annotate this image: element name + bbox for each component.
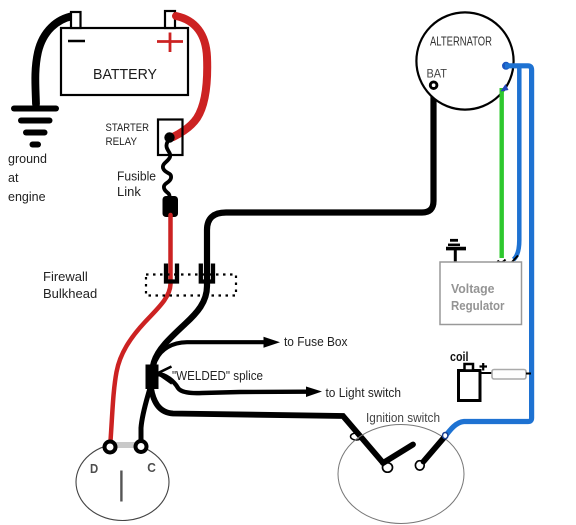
wire fusible link to distributor D (red) (111, 215, 171, 441)
svg-text:ALTERNATOR: ALTERNATOR (430, 35, 492, 49)
coil body (459, 364, 481, 401)
tick at regulator blue terminal (512, 256, 518, 263)
ignition terminal 4 (blue) (443, 433, 448, 439)
svg-text:C: C (147, 460, 156, 475)
wire alternator BAT to firewall bulkhead (black) (153, 88, 434, 368)
svg-text:"WELDED" splice: "WELDED" splice (172, 368, 263, 383)
svg-text:to Light switch: to Light switch (326, 385, 402, 400)
WELDED splice body (146, 365, 159, 390)
ground at engine symbol (14, 109, 56, 145)
svg-text:Fusible: Fusible (117, 169, 156, 184)
terminal C (136, 441, 147, 452)
wire alternator to voltage regulator (green) (498, 84, 509, 262)
svg-text:BAT: BAT (427, 69, 448, 81)
terminal D (105, 442, 116, 453)
battery B1 (61, 11, 188, 95)
jumper bar between D and C (115, 442, 136, 448)
wire splice to ignition switch (151, 388, 383, 463)
voltage regulator VR (440, 262, 522, 325)
wire alternator to voltage regulator (blue inner) (514, 67, 520, 260)
svg-text:BATTERY: BATTERY (93, 66, 157, 83)
label starter relay (106, 122, 150, 148)
ignition terminal 1 (351, 433, 363, 440)
svg-text:Bulkhead: Bulkhead (43, 286, 97, 301)
ignition switch body (338, 425, 464, 524)
bulkhead connector left (166, 264, 177, 282)
svg-text:Regulator: Regulator (451, 299, 505, 313)
svg-text:engine: engine (8, 190, 46, 204)
distributor centre mark (120, 471, 122, 502)
ignition terminal 2 (383, 463, 393, 472)
wire coil to ballast resistor (480, 372, 492, 374)
svg-text:STARTER: STARTER (106, 122, 150, 134)
svg-text:D: D (90, 461, 98, 476)
wire splice to light switch arrow (157, 374, 322, 397)
wire alternator to ignition switch (blue outer) (445, 66, 532, 437)
distributor body (76, 444, 169, 521)
label fusible link (117, 169, 156, 200)
ignition switch right contact wire (424, 437, 445, 462)
wire splice to distributor C (141, 388, 150, 441)
fusible link wire (squiggle) (163, 141, 171, 197)
svg-text:ground: ground (8, 152, 47, 166)
ballast resistor (492, 370, 531, 380)
wire battery negative to ground (35, 16, 73, 104)
bulkhead connector right (201, 264, 213, 282)
ignition terminal 3 (415, 461, 424, 470)
wire battery positive to starter relay (red) (173, 16, 207, 137)
label firewall bulkhead (43, 269, 97, 301)
svg-text:to Fuse Box: to Fuse Box (284, 334, 348, 349)
arrow pointing to splice (158, 367, 173, 384)
wire splice to fuse box arrow (156, 337, 280, 360)
starter relay (158, 120, 183, 156)
svg-text:Firewall: Firewall (43, 269, 88, 284)
terminal BAT (430, 82, 437, 89)
firewall bulkhead dashed box (146, 275, 236, 296)
svg-text:at: at (8, 171, 19, 185)
alternator output terminal (blue dot) (502, 62, 510, 70)
ground symbol above regulator (446, 240, 466, 263)
label ground at engine (8, 152, 47, 204)
alternator body (416, 12, 513, 109)
svg-text:Link: Link (117, 184, 141, 199)
coil plus sign (480, 363, 488, 371)
fusible link body (163, 196, 179, 217)
svg-text:Voltage: Voltage (451, 282, 495, 296)
svg-text:coil: coil (450, 350, 469, 364)
svg-text:Ignition switch: Ignition switch (366, 410, 440, 425)
ignition switch lever (383, 445, 413, 464)
svg-text:RELAY: RELAY (106, 136, 138, 148)
